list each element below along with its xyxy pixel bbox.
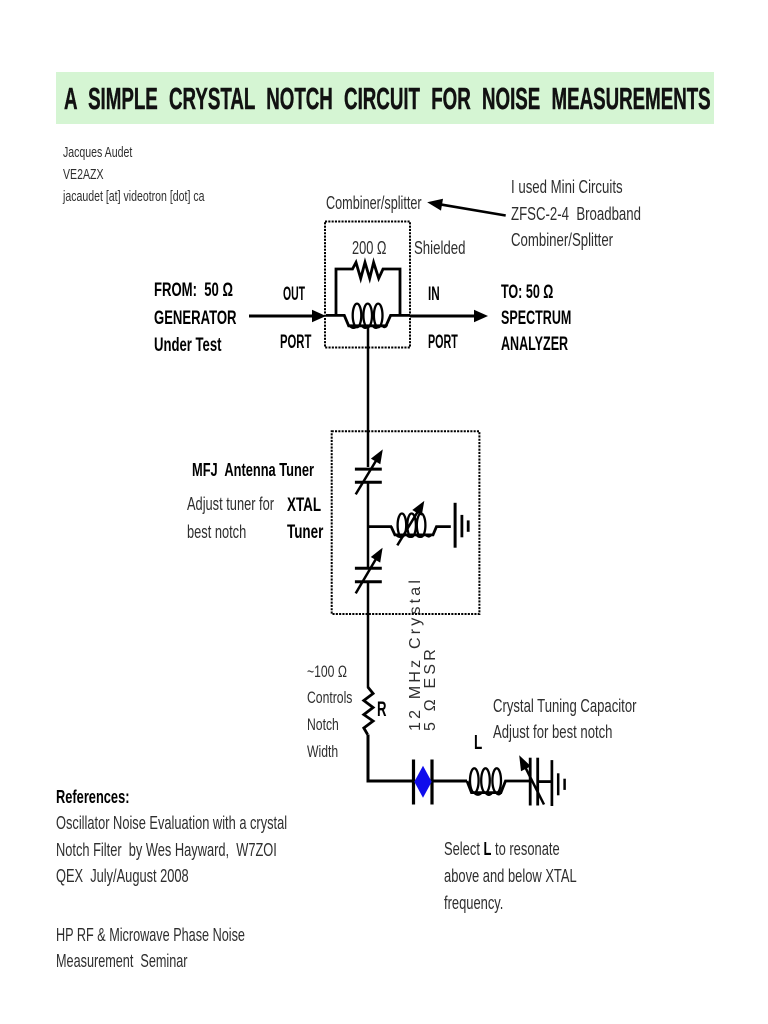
label PORT left: [280, 332, 311, 354]
label L: [474, 732, 482, 755]
references block 2: [56, 922, 245, 976]
wire C1 to node: [367, 484, 370, 569]
label MFJ Antenna Tuner: [192, 459, 314, 481]
variable capacitor C1: [355, 449, 383, 494]
references block: [56, 784, 287, 889]
ground bottom: [538, 760, 565, 806]
label PORT right: [428, 332, 458, 354]
wire R to corner: [368, 735, 413, 782]
ground tuner: [455, 503, 468, 548]
inductor tuner: [391, 501, 451, 546]
label Combiner/splitter: [326, 193, 422, 214]
resistor 200 ohm: [336, 262, 400, 315]
wire center vertical top: [367, 327, 370, 467]
variable capacitor crystal tuning: [519, 755, 544, 805]
annotation arrow: [427, 199, 506, 216]
resistor R: [364, 687, 373, 735]
label select L: [444, 836, 577, 917]
wire right with arrow: [410, 310, 488, 322]
label adjust tuner: [187, 491, 274, 547]
label Shielded: [414, 238, 465, 259]
variable capacitor C2: [355, 548, 383, 594]
crystal 12 MHz: [414, 760, 433, 805]
title bar: [56, 72, 714, 124]
note Mini Circuits: [511, 174, 641, 254]
label R: [377, 698, 386, 722]
label TO spectrum analyzer: [501, 279, 571, 358]
wire left with arrow: [249, 310, 326, 322]
author block: [63, 142, 204, 207]
inductor L: [467, 768, 530, 795]
tuner dashed box: [332, 431, 480, 614]
value 200 ohm: [352, 238, 386, 259]
label 12 MHz crystal rotated: [408, 577, 439, 731]
wire C2 down to R: [367, 583, 370, 687]
wire crystal to L: [432, 780, 467, 783]
inductor combiner: [326, 304, 410, 328]
tuner branch wire: [368, 525, 392, 528]
combiner dashed box: [325, 222, 410, 348]
label 100 ohm controls notch width: [307, 659, 352, 765]
label OUT: [283, 284, 305, 306]
title text: [64, 82, 711, 116]
label FROM generator: [154, 277, 237, 359]
label IN: [428, 284, 440, 306]
label XTAL Tuner: [287, 492, 323, 547]
label crystal tuning capacitor: [493, 693, 636, 745]
